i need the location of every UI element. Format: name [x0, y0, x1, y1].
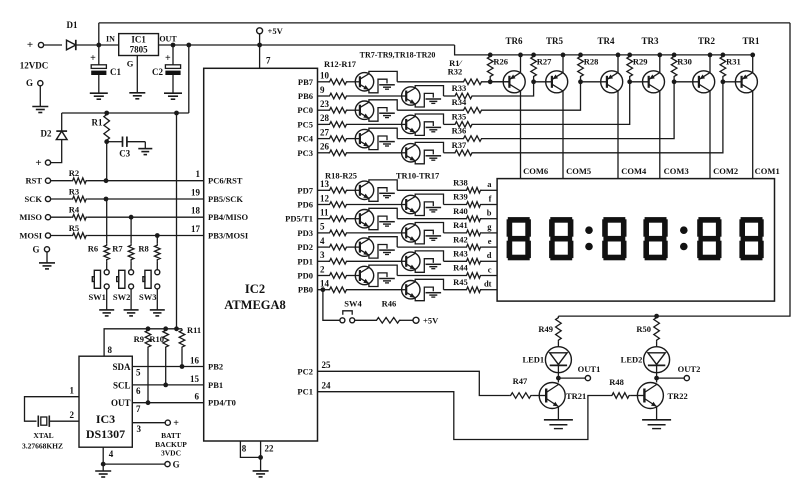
- node: [174, 326, 179, 331]
- resistor R17: [318, 152, 329, 154]
- svg-text:R1: R1: [92, 118, 103, 128]
- svg-text:TR3: TR3: [641, 36, 659, 46]
- wire: [88, 180, 204, 182]
- resistor R36: [462, 136, 483, 142]
- svg-text:R40: R40: [453, 206, 468, 216]
- wire +5V top rail: [99, 22, 790, 24]
- wire: [444, 152, 454, 154]
- svg-text:PC1: PC1: [297, 387, 313, 397]
- svg-text:R44: R44: [453, 263, 468, 273]
- svg-text:R7: R7: [112, 244, 123, 254]
- svg-text:13: 13: [320, 179, 330, 189]
- svg-text:OUT: OUT: [159, 35, 177, 44]
- transistor TR9: [355, 129, 373, 147]
- svg-text:+: +: [90, 53, 96, 64]
- transistor TR22: [637, 383, 663, 409]
- pin PC1 wire: [318, 392, 611, 440]
- svg-text:R39: R39: [453, 192, 468, 202]
- wire OUT line: [159, 44, 455, 46]
- svg-text:LED1: LED1: [522, 355, 544, 365]
- svg-text:e: e: [488, 236, 492, 246]
- svg-text:IC3: IC3: [96, 412, 115, 426]
- svg-text:27: 27: [320, 127, 330, 137]
- node: [104, 178, 109, 183]
- switch SW3: [155, 270, 160, 275]
- wire +5V right edge: [558, 23, 790, 316]
- svg-text:DS1307: DS1307: [86, 427, 125, 441]
- svg-text:3: 3: [137, 424, 142, 434]
- resistor R40: [465, 216, 482, 222]
- wire: [348, 109, 355, 111]
- svg-text:PB6: PB6: [298, 91, 313, 101]
- resistor R16: [318, 138, 329, 140]
- svg-text:R9: R9: [134, 334, 144, 344]
- ground: [99, 309, 114, 311]
- node: [654, 314, 659, 319]
- wire: [444, 232, 466, 234]
- svg-text:OUT: OUT: [111, 398, 131, 408]
- svg-text:SW2: SW2: [113, 292, 130, 302]
- svg-text:+: +: [173, 418, 179, 429]
- svg-text:PD2: PD2: [297, 242, 313, 252]
- resistor R31: [721, 53, 726, 58]
- ground: [253, 470, 269, 472]
- svg-text:PB2: PB2: [208, 362, 223, 372]
- svg-text:dt: dt: [484, 279, 492, 289]
- switch SW4: [340, 318, 345, 323]
- diode D1: [67, 40, 76, 50]
- svg-text:OUT2: OUT2: [678, 364, 701, 374]
- svg-text:1: 1: [70, 386, 75, 396]
- resistor R24: [318, 275, 329, 277]
- svg-text:2: 2: [70, 410, 75, 420]
- svg-text:R37: R37: [452, 140, 467, 150]
- resistor R9: [145, 329, 151, 349]
- svg-text:SDA: SDA: [112, 362, 131, 372]
- svg-text:R5: R5: [69, 223, 79, 233]
- resistor R41: [465, 230, 482, 236]
- svg-text:D1: D1: [67, 20, 78, 30]
- resistor R18: [318, 189, 329, 191]
- resistor R7: [130, 217, 132, 244]
- resistor R35: [454, 122, 474, 128]
- 7-segment digit 1: [508, 217, 530, 223]
- wire: [348, 218, 355, 220]
- resistor R46: [355, 319, 375, 321]
- node: [163, 326, 168, 331]
- svg-text:PB4/MISO: PB4/MISO: [208, 212, 249, 222]
- svg-text:ATMEGA8: ATMEGA8: [224, 298, 286, 312]
- resistor R20: [318, 218, 329, 220]
- wire row1 to TR6 base: [483, 81, 509, 83]
- svg-text:G: G: [173, 459, 180, 469]
- svg-text:R12-R17: R12-R17: [324, 59, 357, 69]
- svg-text:R36: R36: [452, 126, 467, 136]
- wire: [348, 275, 355, 277]
- terminal +12V input: [38, 42, 43, 47]
- terminal MISO: [45, 215, 50, 220]
- resistor R6: [106, 199, 108, 244]
- wire row6 jog to base: [474, 82, 742, 153]
- colon 2: [680, 226, 688, 234]
- svg-text:9: 9: [320, 85, 325, 95]
- IC U2 ATMEGA8: [204, 68, 318, 441]
- svg-text:PC2: PC2: [297, 366, 313, 376]
- transistor TR7: [355, 73, 373, 91]
- svg-text:8: 8: [108, 345, 113, 355]
- IC2 ground pins 8 22: [240, 441, 260, 457]
- svg-text:R47: R47: [513, 376, 528, 386]
- svg-text:R27: R27: [537, 57, 552, 67]
- wire: [482, 246, 497, 248]
- wire: [348, 95, 402, 97]
- wire: [130, 289, 132, 310]
- wire: [323, 290, 340, 321]
- wire: [397, 218, 465, 220]
- resistor R43: [465, 259, 482, 265]
- 7-segment digit 4: [645, 217, 667, 223]
- wire: [444, 123, 454, 125]
- svg-text:C1: C1: [110, 67, 121, 77]
- svg-text:PD3: PD3: [297, 228, 313, 238]
- wire: [348, 204, 402, 206]
- resistor R10: [163, 329, 169, 349]
- svg-text:4: 4: [109, 449, 114, 459]
- resistor R12: [318, 81, 329, 83]
- resistor R23: [318, 260, 329, 262]
- svg-text:C2: C2: [152, 67, 163, 77]
- svg-text:PB3/MOSI: PB3/MOSI: [208, 231, 249, 241]
- svg-text:PC5: PC5: [297, 119, 313, 129]
- node: [96, 43, 101, 48]
- node: [171, 43, 176, 48]
- 7-segment digit 3: [603, 217, 625, 223]
- svg-text:10: 10: [320, 71, 330, 81]
- svg-text:R6: R6: [88, 244, 98, 254]
- ground: [144, 142, 146, 149]
- LED1: [557, 342, 559, 347]
- wire: [348, 189, 355, 191]
- svg-text:3: 3: [320, 250, 325, 260]
- transistor TR16: [355, 266, 373, 284]
- ground: [164, 92, 182, 94]
- svg-text:PC6/RST: PC6/RST: [208, 176, 243, 186]
- svg-text:PD6: PD6: [297, 200, 313, 210]
- wire: [348, 289, 402, 291]
- wire: [348, 152, 402, 154]
- resistor R28: [578, 53, 583, 58]
- node: [104, 197, 109, 202]
- svg-text:PB0: PB0: [298, 285, 313, 295]
- svg-text:1: 1: [196, 169, 201, 179]
- wire: [348, 81, 355, 83]
- node: [104, 139, 109, 144]
- svg-text:23: 23: [320, 99, 330, 109]
- diode D2: [61, 113, 63, 131]
- wire row4 jog to base: [474, 82, 649, 125]
- svg-text:11: 11: [320, 208, 329, 218]
- svg-text:PB1: PB1: [208, 380, 223, 390]
- transistor TR15: [402, 252, 420, 270]
- wire +5V down: [176, 113, 178, 329]
- capacitor C1: [98, 45, 100, 65]
- wire row3 jog to base: [483, 82, 607, 110]
- svg-text:R26: R26: [493, 57, 508, 67]
- wire: [106, 289, 108, 310]
- svg-text:7: 7: [266, 56, 271, 66]
- wire: [348, 232, 402, 234]
- transistor TR14: [355, 238, 373, 256]
- svg-text:COM5: COM5: [566, 166, 591, 176]
- svg-text:5: 5: [320, 222, 325, 232]
- resistor R32: [462, 79, 483, 85]
- pin 3 battery: [132, 422, 165, 424]
- resistor R47: [509, 393, 532, 399]
- svg-text:G: G: [127, 59, 134, 69]
- pin PC2 wire: [318, 371, 510, 395]
- resistor R26: [488, 53, 493, 58]
- resistor R44: [465, 273, 482, 279]
- svg-text:SW3: SW3: [139, 292, 156, 302]
- svg-text:COM4: COM4: [621, 166, 647, 176]
- terminal SCK: [45, 196, 50, 201]
- svg-text:24: 24: [322, 381, 332, 391]
- resistor R29: [627, 53, 632, 58]
- svg-text:R35: R35: [452, 111, 467, 121]
- svg-text:MOSI: MOSI: [19, 231, 42, 241]
- transistor TR20: [402, 144, 420, 162]
- svg-text:R48: R48: [609, 377, 624, 387]
- wire +5V rail step: [455, 45, 753, 55]
- wire: [88, 216, 204, 218]
- wire: [397, 109, 462, 111]
- wire: [482, 218, 497, 220]
- svg-text:16: 16: [190, 355, 200, 365]
- 7-segment digit 5: [698, 217, 720, 223]
- wire: [88, 198, 204, 200]
- node: [186, 43, 191, 48]
- resistor R1: [104, 113, 110, 142]
- svg-text:R50: R50: [636, 324, 651, 334]
- svg-text:G: G: [32, 244, 39, 254]
- wire: [44, 44, 62, 46]
- resistor R13: [318, 95, 329, 97]
- svg-text:R42: R42: [453, 234, 468, 244]
- LED2: [656, 342, 658, 347]
- svg-text:R30: R30: [677, 57, 692, 67]
- IC1 ground pin G: [136, 56, 138, 93]
- svg-text:COM3: COM3: [664, 166, 689, 176]
- svg-text:19: 19: [191, 188, 201, 198]
- svg-text:6: 6: [136, 386, 141, 396]
- svg-text:G: G: [26, 78, 33, 88]
- transistor TR8: [355, 101, 373, 119]
- svg-text:R29: R29: [633, 57, 648, 67]
- ground: [150, 309, 165, 311]
- resistor R3: [51, 198, 72, 200]
- wire: [656, 373, 658, 383]
- svg-text:PD5/T1: PD5/T1: [285, 214, 313, 224]
- node: [257, 43, 262, 48]
- svg-text:f: f: [489, 193, 492, 203]
- svg-text:OUT1: OUT1: [578, 364, 601, 374]
- svg-text:TR22: TR22: [668, 391, 688, 401]
- svg-text:TR5: TR5: [546, 36, 564, 46]
- svg-text:LED2: LED2: [621, 355, 643, 365]
- svg-text:TR2: TR2: [698, 36, 716, 46]
- resistor R38: [465, 188, 482, 194]
- transistor TR3: [643, 71, 665, 93]
- svg-text:PC0: PC0: [297, 105, 313, 115]
- 7-segment digit 6: [741, 217, 763, 223]
- terminal G input: [38, 81, 43, 86]
- wire: [482, 232, 497, 234]
- node: [104, 111, 109, 116]
- wire: [156, 289, 158, 310]
- terminal RST: [45, 178, 50, 183]
- transistor TR17: [402, 281, 420, 299]
- svg-text:PD4/T0: PD4/T0: [208, 398, 236, 408]
- svg-text:SW1: SW1: [88, 292, 105, 302]
- transistor TR1: [735, 71, 757, 93]
- terminal OUT2: [657, 377, 685, 379]
- svg-text:PD7: PD7: [297, 185, 313, 195]
- resistor R48: [610, 393, 630, 399]
- resistor R4: [51, 216, 72, 218]
- pin 1 wire: [25, 397, 80, 422]
- wire: [130, 261, 132, 269]
- svg-text:TR21: TR21: [566, 391, 586, 401]
- wire: [348, 123, 402, 125]
- switch SW1: [104, 270, 109, 275]
- pin 4 ground: [102, 447, 104, 464]
- svg-text:PB7: PB7: [298, 77, 314, 87]
- svg-text:R2: R2: [69, 168, 79, 178]
- wire: [188, 45, 190, 113]
- wire: [557, 373, 559, 383]
- transistor TR19: [402, 115, 420, 133]
- resistor R22: [318, 246, 329, 248]
- svg-text:R41: R41: [453, 220, 468, 230]
- svg-text:7: 7: [136, 404, 141, 414]
- wire: [656, 407, 658, 420]
- resistor R25: [318, 289, 329, 291]
- wire: [397, 189, 465, 191]
- ground: [642, 419, 671, 421]
- ground: [46, 252, 48, 263]
- resistor R42: [465, 244, 482, 250]
- svg-text:PC4: PC4: [297, 134, 313, 144]
- switch SW2: [129, 270, 134, 275]
- svg-text:+5V: +5V: [423, 315, 439, 325]
- wire: [397, 138, 462, 140]
- svg-text:R10: R10: [149, 334, 164, 344]
- node: [146, 326, 151, 331]
- wire to top rail: [98, 23, 100, 45]
- svg-text:+: +: [27, 39, 33, 51]
- resistor R11: [179, 329, 185, 349]
- display module box: [497, 179, 774, 302]
- svg-text:PC3: PC3: [297, 148, 313, 158]
- svg-text:R3: R3: [69, 187, 79, 197]
- wire: [348, 138, 355, 140]
- transistor TR2: [693, 71, 715, 93]
- svg-text:XTAL: XTAL: [33, 431, 53, 440]
- wire: [106, 142, 108, 181]
- resistor R37: [454, 150, 474, 156]
- svg-text:IC2: IC2: [245, 282, 265, 296]
- resistor R21: [318, 232, 329, 234]
- svg-text:d: d: [487, 250, 492, 260]
- svg-text:TR10-TR17: TR10-TR17: [396, 171, 440, 181]
- wire: [156, 261, 158, 269]
- wire: [397, 246, 465, 248]
- svg-text:25: 25: [322, 360, 332, 370]
- transistor TR18: [402, 87, 420, 105]
- svg-text:2: 2: [320, 264, 325, 274]
- terminal OUT1: [558, 377, 585, 379]
- terminal +5V: [257, 28, 263, 34]
- svg-text:R38: R38: [453, 178, 468, 188]
- svg-text:SW4: SW4: [344, 298, 362, 308]
- svg-text:R46: R46: [382, 298, 397, 308]
- node: [155, 233, 160, 238]
- svg-text:PB5/SCK: PB5/SCK: [208, 194, 243, 204]
- svg-text:+5V: +5V: [268, 26, 284, 36]
- transistor TR13: [402, 224, 420, 242]
- wire: [444, 204, 466, 206]
- terminal + battery: [45, 160, 50, 165]
- svg-text:22: 22: [265, 443, 275, 453]
- wire: [444, 95, 454, 97]
- resistor R49: [556, 316, 562, 342]
- crystal XTAL: [37, 416, 39, 427]
- svg-text:R49: R49: [538, 324, 553, 334]
- svg-text:R11: R11: [187, 325, 201, 335]
- ground: [124, 309, 139, 311]
- svg-text:COM2: COM2: [713, 166, 738, 176]
- svg-text:b: b: [487, 208, 492, 218]
- svg-text:D2: D2: [41, 129, 52, 139]
- wire: [397, 81, 462, 83]
- svg-text:R43: R43: [453, 249, 468, 259]
- resistor R50: [654, 316, 660, 342]
- transistor TR11: [402, 195, 420, 213]
- svg-text:R32: R32: [448, 67, 463, 77]
- svg-text:17: 17: [191, 224, 201, 234]
- ground: [39, 86, 41, 107]
- wire: [76, 44, 119, 46]
- svg-text:c: c: [488, 264, 492, 274]
- svg-text:TR6: TR6: [505, 36, 523, 46]
- terminal G: [44, 247, 49, 252]
- wire: [482, 204, 497, 206]
- resistor R30: [672, 53, 677, 58]
- wire: [444, 260, 466, 262]
- ground: [544, 419, 573, 421]
- transistor TR12: [355, 210, 373, 228]
- svg-text:COM6: COM6: [523, 166, 548, 176]
- terminal +5V: [401, 319, 413, 321]
- svg-text:TR1: TR1: [742, 36, 760, 46]
- svg-text:R4: R4: [69, 205, 80, 215]
- wire row2 jog to base: [474, 82, 552, 96]
- svg-text:3.27668KHZ: 3.27668KHZ: [22, 442, 63, 451]
- resistor R27: [531, 53, 536, 58]
- wire: [106, 261, 108, 269]
- colon 1: [585, 226, 593, 234]
- wire: [348, 246, 355, 248]
